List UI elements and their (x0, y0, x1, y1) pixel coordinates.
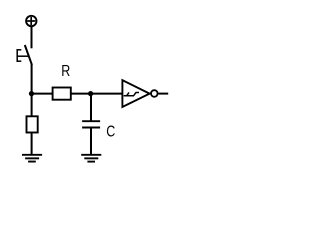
wire pull-down resistor to ground (31, 133, 33, 155)
pull-down resistor body (27, 116, 38, 132)
hysteresis symbol (124, 93, 139, 96)
svg-text:C: C (106, 123, 115, 141)
wire node 2 to inverter input (91, 93, 122, 95)
switch S1 arm (open) (25, 45, 32, 65)
capacitor C plates (82, 121, 100, 127)
wire node 1 to resistor R (32, 93, 53, 95)
ground (capacitor side) (81, 155, 101, 162)
svg-text:R: R (61, 63, 70, 81)
wire R to node 2 (71, 93, 91, 95)
wire switch bottom to node 1 (31, 64, 33, 94)
inverter output bubble (151, 90, 158, 97)
output wire (158, 93, 168, 95)
node 1 junction dot (29, 91, 34, 96)
wire supply to switch top terminal (31, 27, 33, 49)
ground (left side) (22, 155, 42, 162)
wire capacitor to ground (90, 128, 92, 154)
switch manual actuator bracket (17, 49, 29, 62)
node 2 junction dot (88, 91, 93, 96)
wire node 2 down to capacitor (90, 94, 92, 121)
wire node 1 down to pull-down resistor (31, 94, 33, 117)
resistor R body (53, 88, 71, 100)
Schmitt-trigger inverter U1 triangle (122, 80, 149, 107)
DC supply + terminal (26, 16, 36, 26)
